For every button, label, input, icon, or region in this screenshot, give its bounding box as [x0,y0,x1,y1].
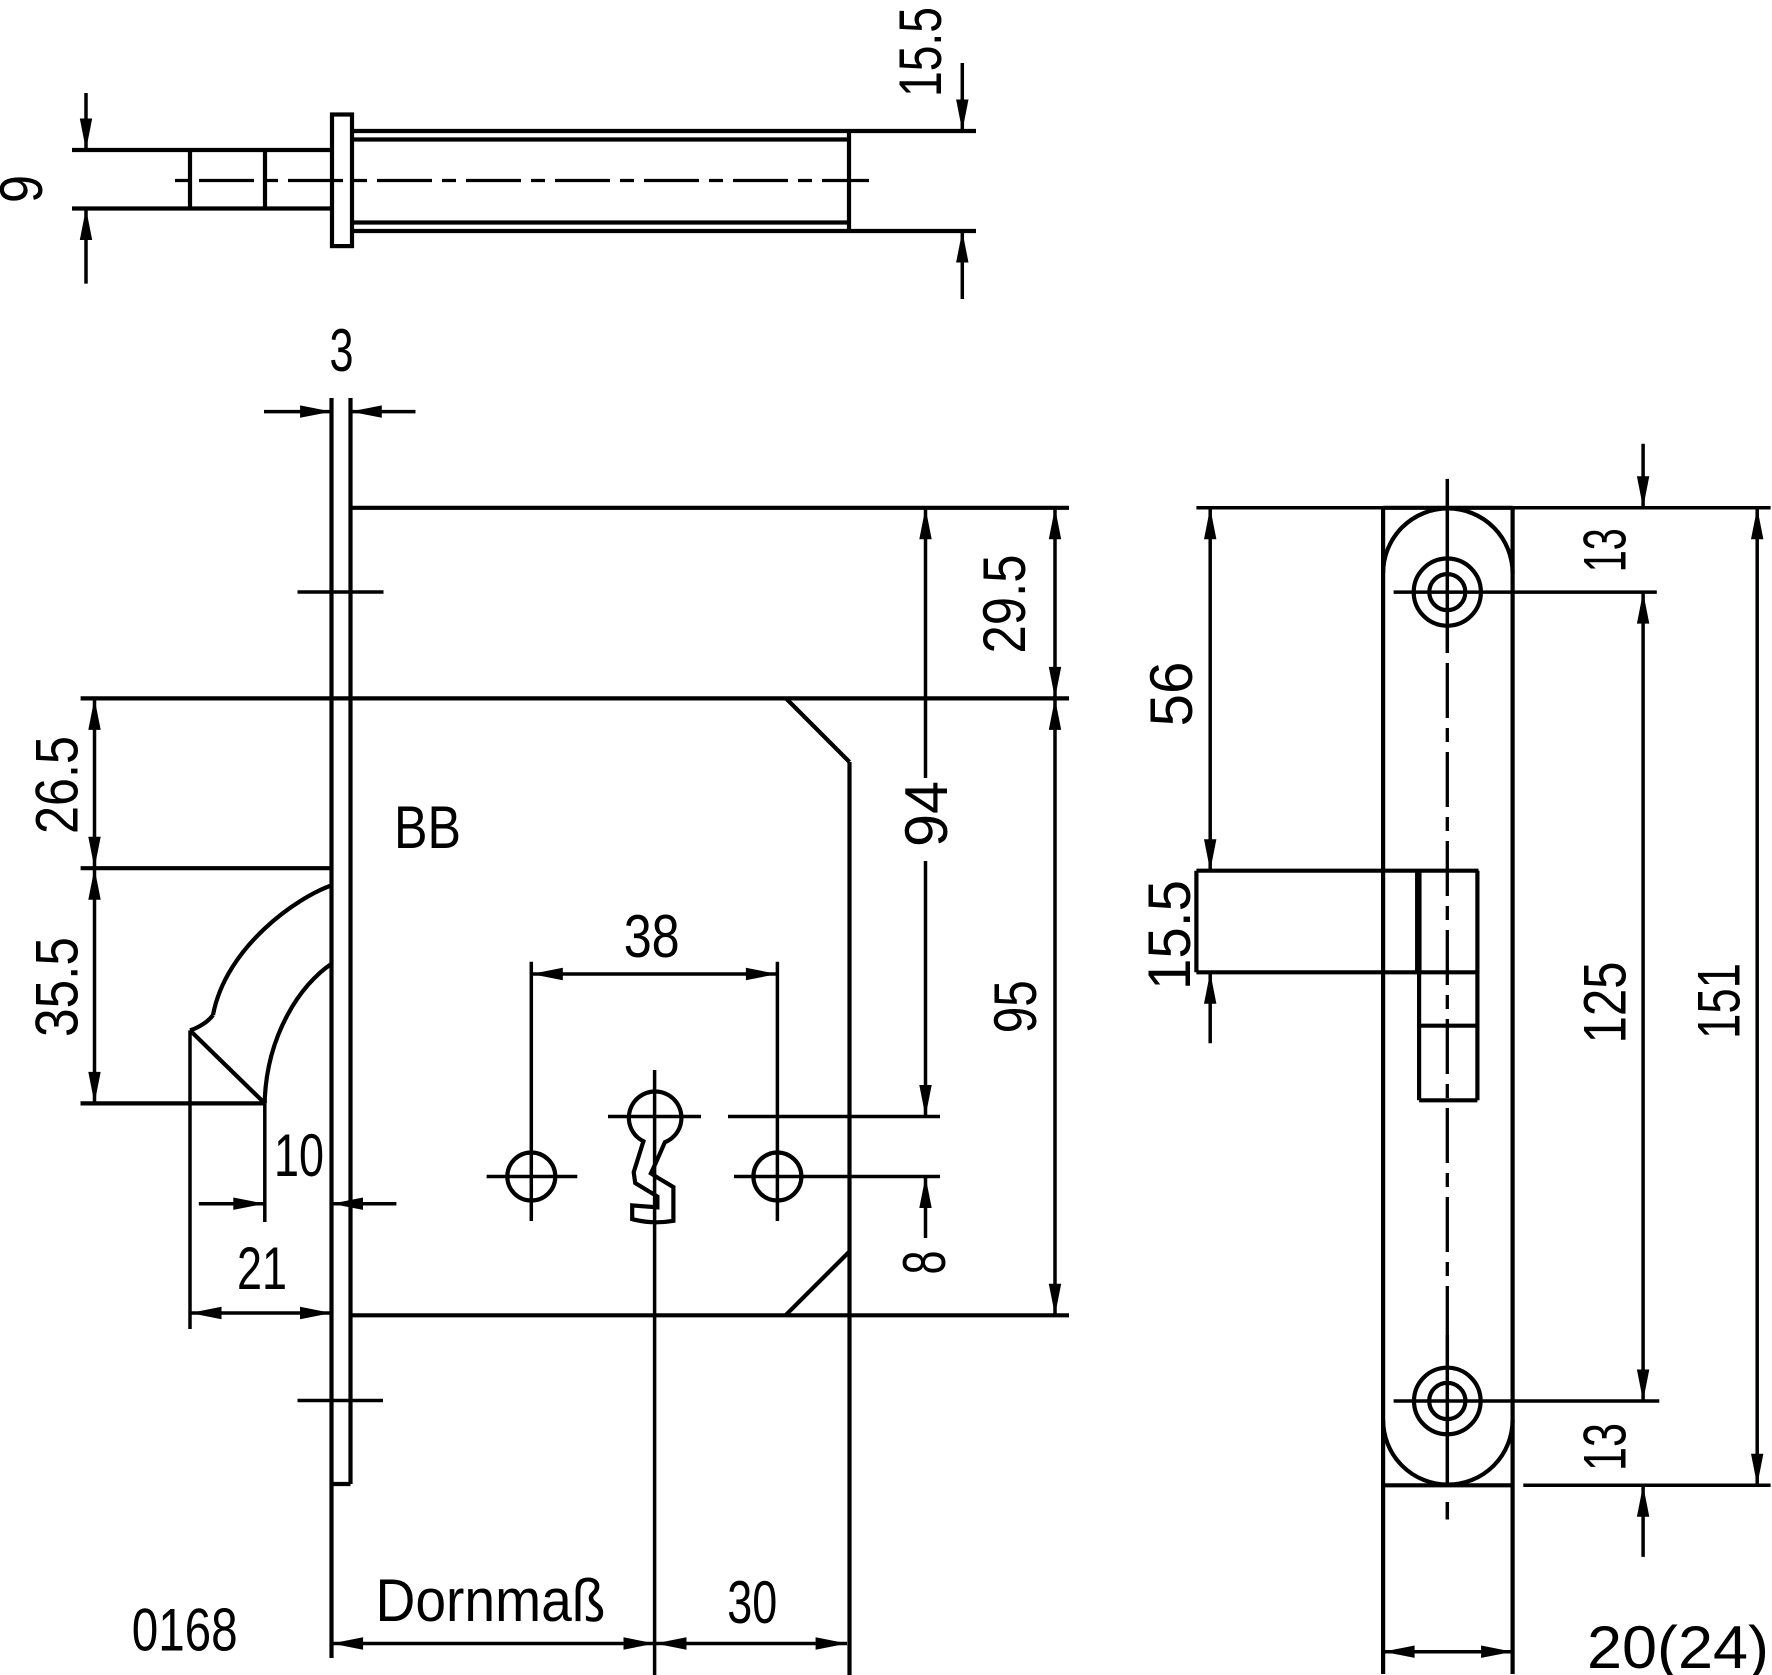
dim 15.5 top [887,7,969,299]
bolt shaft bottom edge [72,206,332,210]
svg-text:30: 30 [727,1569,777,1636]
strike plate bottom extension line [1523,1484,1770,1488]
bolt slot divider [1419,1024,1477,1028]
dim 94 [893,508,960,1117]
svg-text:13: 13 [1571,1423,1638,1471]
plate centerline end dash [1446,1502,1450,1520]
lock case upper chamfer [786,698,850,762]
bolt shaft top edge [72,148,332,152]
strike plate bottom edge [1383,1483,1513,1487]
latch hook inner curve [265,964,332,1104]
left hole [507,1153,555,1201]
dim 15.5 right view [1136,880,1216,1043]
lock case top edge [351,506,1070,510]
bottom screw hole inner [1429,1383,1465,1419]
strike plate top edge [1383,506,1513,510]
bolt body outer top edge [352,129,976,133]
dim 125 [1571,592,1649,1401]
faceplate bottom cap [332,1482,351,1486]
dim 20(24) [1383,1614,1769,1675]
svg-text:20(24): 20(24) [1587,1614,1769,1675]
latch hook front vertical [263,1103,267,1222]
dim 29.5 [971,508,1061,699]
dim 26.5 [24,698,101,868]
svg-text:15.5: 15.5 [1136,880,1203,990]
left hole vertical extension [530,962,534,1221]
plate centerline solid through bottom screw [1446,1335,1450,1487]
svg-text:125: 125 [1571,962,1638,1044]
bolt slot left edge bold [1415,871,1422,973]
dim 13 bottom [1571,1423,1649,1557]
dim 30 [655,1569,847,1650]
plate centerline dashed middle [1446,653,1449,1335]
lock case right edge [847,762,851,1675]
svg-text:21: 21 [237,1235,287,1302]
svg-text:0168: 0168 [132,1596,238,1663]
svg-text:BB: BB [394,794,461,861]
bolt tab bottom edge [1196,970,1478,974]
latch rear extension line [188,1030,192,1329]
faceplate upper tick [298,590,384,594]
svg-text:95: 95 [982,980,1049,1033]
dim 95 [982,698,1061,1315]
svg-text:10: 10 [274,1122,324,1189]
bolt tab top edge [1196,869,1478,873]
dim 151 [1686,508,1764,1486]
faceplate lower tick [298,1399,384,1403]
bolt tab left edge [1194,871,1198,973]
bolt body inner top edge [352,137,849,141]
strike plate right edge [1510,508,1514,1674]
keyhole vertical centerline [653,1070,657,1675]
dim 9 [0,93,92,284]
bolt body outer bottom edge [352,229,976,233]
bolt body inner bottom edge [352,220,849,224]
left hole horizontal tick [487,1175,578,1179]
bottom screw hole outer [1414,1368,1481,1435]
shaft tick 2 [263,150,267,209]
top edge extension right [1513,506,1771,510]
lock case bottom edge [351,1313,1070,1317]
faceplate left edge [329,398,333,1658]
lock case lower chamfer [786,1252,850,1316]
svg-text:3: 3 [330,317,354,384]
plate bottom arc [1383,1420,1513,1485]
svg-text:38: 38 [624,903,680,970]
shaft tick 1 [188,150,192,209]
latch hook beak [190,1015,213,1030]
bolt slot bottom cap [1419,1098,1477,1102]
top screw hole inner [1429,574,1465,610]
bolt slot left edge lower [1417,972,1421,1100]
svg-text:151: 151 [1686,963,1753,1039]
bolt slot right edge [1475,871,1479,1101]
svg-text:29.5: 29.5 [971,555,1038,654]
bolt body right end [847,131,851,231]
svg-text:94: 94 [893,781,960,847]
right hole [753,1153,801,1201]
svg-text:35.5: 35.5 [24,937,91,1037]
dim 38 [531,903,777,980]
svg-text:26.5: 26.5 [24,736,91,834]
svg-text:13: 13 [1571,528,1638,572]
strike plate left edge [1381,508,1385,1674]
dim Dornmass [332,1567,655,1650]
plate centerline solid through top screw [1446,479,1450,653]
svg-text:8: 8 [891,1251,958,1275]
dim 13 top [1571,444,1649,573]
svg-text:15.5: 15.5 [887,7,954,97]
top screw hole outer [1414,559,1481,626]
bolt centerline [172,179,869,182]
svg-text:56: 56 [1138,662,1205,727]
faceplate right edge [348,398,352,1484]
svg-text:Dornmaß: Dornmaß [376,1567,606,1634]
latch hook underside diagonal [190,1030,265,1103]
keyhole horizontal tick [608,1115,701,1119]
latch hook bottom line [81,1101,265,1105]
bottom screw tick and extension [1394,1399,1660,1403]
svg-text:9: 9 [0,175,55,203]
dim 35.5 [24,868,101,1103]
dim 10 [199,1122,397,1210]
dim 21 [190,1235,332,1319]
keyhole circle and ward slot [629,1091,682,1222]
dim 3 [264,317,416,418]
right hole vertical extension [776,962,780,1221]
latch hook outer curve [213,885,332,1015]
lock case inner top edge [81,696,1069,700]
hook top line [81,866,332,870]
top edge extension left [1196,506,1383,510]
top screw tick and extension [1394,590,1657,594]
plate top arc [1383,508,1513,573]
right hole horizontal tick and extension [734,1175,940,1179]
dim 8 [891,1177,958,1275]
keyhole center extension line [728,1115,940,1119]
dim 56 [1138,508,1216,871]
bolt flange [332,115,352,247]
